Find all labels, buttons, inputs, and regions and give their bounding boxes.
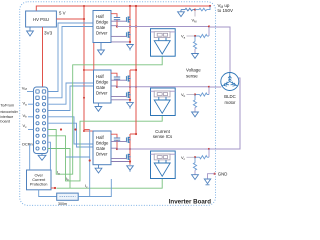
svg-text:HV PSU: HV PSU [33,17,49,22]
wire: phase tap [208,87,210,95]
wire: VM top rail [36,6,210,11]
wire: gate drive signals [111,20,126,22]
ground (divider) [192,112,199,117]
svg-text:Driver: Driver [96,152,108,157]
svg-text:Bridge: Bridge [96,20,109,25]
wire: PWM AH [48,23,93,92]
wire: Ia green [48,56,162,174]
capacitor bootstrap [111,134,117,138]
op-amp current sense IC [151,151,176,179]
svg-text:Half: Half [96,135,104,140]
svg-text:to 150V: to 150V [218,8,234,13]
svg-text:interface: interface [0,115,13,119]
wire: phase output [117,26,209,28]
wire: gate drive signals [111,79,126,81]
transistor low-side MOSFET [126,32,130,38]
svg-text:OCPn: OCPn [22,141,33,146]
svg-text:Protection: Protection [30,182,48,187]
resistor divider bottom [193,157,196,175]
wire: 5V tap driver3 [83,130,85,132]
wire: red link driver1-driver2 [93,43,95,71]
transistor low-side MOSFET [126,92,130,98]
wire: red vertical rail x84 [83,6,85,131]
resistor divider top [195,93,209,96]
wire: OCP to shunt [39,190,57,197]
svg-text:Driver: Driver [96,31,108,36]
wire: Ib green [48,116,162,181]
svg-text:microcontroller: microcontroller [0,110,18,114]
gate driver U2 [93,11,111,43]
svg-text:Va: Va [23,101,28,107]
wire: PWM BL [48,86,94,111]
resistor divider bottom [193,36,196,54]
svg-text:Vb: Vb [23,113,28,119]
resistor: VM divider R2 [195,6,210,11]
svg-text:Gate: Gate [96,146,106,151]
gate driver U3 [94,70,112,103]
transistor high-side MOSFET [126,76,130,82]
wire: gate return blue [84,129,90,131]
wire: phase leg red [129,6,131,44]
svg-text:Half: Half [96,14,104,19]
svg-text:300m: 300m [58,202,67,206]
inverter board dotted boundary [20,2,216,206]
svg-text:Bridge: Bridge [96,79,109,84]
transistor high-side MOSFET [126,137,130,143]
capacitor bootstrap [111,73,117,77]
svg-text:Inverter Board: Inverter Board [169,198,212,205]
wire: Ic green [48,149,70,189]
wire: phase output [117,86,209,88]
svg-text:Gate: Gate [96,25,106,30]
capacitor bootstrap [111,14,117,18]
gate driver U4 [93,131,111,165]
wire: phase tap [208,27,210,36]
wire: shunt return [78,179,111,197]
svg-text:Driver: Driver [96,90,108,95]
wire: source kelvin [111,41,130,43]
ground (VM divider) [178,12,185,17]
wire: leg2 feed [130,69,136,71]
svg-text:Vc: Vc [23,123,28,129]
wire: PWM CL [48,123,93,147]
op-amp current sense IC [151,29,176,57]
svg-text:3V3: 3V3 [44,31,53,36]
resistor divider bottom [193,95,196,113]
svg-text:sense ICs: sense ICs [153,134,173,139]
svg-text:VM: VM [22,85,28,91]
wire: phase output [117,148,209,150]
wire: phase leg red [129,70,131,102]
node: rail end dot [209,5,211,7]
wire: phase B to motor [209,86,221,88]
ground (leg) [127,103,134,109]
wire: connector to OCP [48,142,51,170]
wire: PWM AL [48,27,93,98]
svg-text:Vc: Vc [181,155,186,161]
wire: PWM CH [48,117,93,144]
ground (divider) [192,54,199,59]
ground (leg) [127,166,134,172]
svg-text:Gate: Gate [96,85,106,90]
connector J1 to interface board [34,87,48,154]
svg-text:Va: Va [181,34,186,40]
svg-text:motor: motor [225,100,237,105]
wire: 3V3 net [42,27,44,87]
svg-text:Ia: Ia [57,170,60,176]
wire: phase tap [208,149,210,157]
HV PSU U1 [26,11,57,27]
connector arrow [38,154,46,161]
ground (driver2) [95,103,102,111]
resistor: VM divider R1 [181,8,195,12]
svg-text:Half: Half [96,74,104,79]
wire: phase C to motor [209,78,240,149]
wire: source kelvin [111,99,130,101]
svg-text:BLDC: BLDC [224,94,235,99]
over current protection U5 [27,170,52,190]
wire: OCPn to connector [30,145,32,170]
motor M1 BLDC [221,73,239,91]
svg-text:Voltage: Voltage [186,67,201,72]
wire: GND stub [208,174,215,179]
wire: phase A to motor [209,27,230,73]
svg-text:Vb: Vb [181,92,186,98]
wire: 5V tap driver2 [83,69,85,71]
resistor: shunt 300m [57,193,78,200]
resistor divider top [195,34,209,37]
wire: OCP trip output [51,187,56,189]
svg-text:To/From: To/From [0,103,14,107]
ground (below HV PSU) [27,27,34,36]
ground (divider) [192,175,199,180]
node: 5V junction [83,18,85,20]
svg-text:sense: sense [186,73,198,78]
ground (driver3) [95,165,102,173]
svg-text:Ib: Ib [66,176,69,182]
wire: phase leg red [129,134,131,165]
wire: gate drive signals [111,141,126,143]
svg-text:Current: Current [155,129,170,134]
ground (driver1) [98,43,105,55]
transistor low-side MOSFET [126,154,130,160]
svg-text:board: board [0,119,10,123]
svg-text:GND: GND [218,171,228,176]
svg-text:5 V: 5 V [59,11,66,16]
wire: PWM BH [48,83,94,104]
svg-text:VM: VM [192,18,198,24]
transistor high-side MOSFET [126,17,130,23]
node: GND on boundary [213,173,215,175]
wire: VM distribution rail [135,6,137,134]
wire: 5V net [56,18,84,20]
svg-text:Bridge: Bridge [96,141,109,146]
wire: source kelvin [111,161,130,163]
resistor divider top [195,156,209,159]
op-amp current sense IC [151,88,176,116]
ground (board GND) [204,179,210,185]
wire: leg3 feed [135,133,137,135]
node: VM tap [194,9,196,11]
ground (leg) [127,45,134,51]
